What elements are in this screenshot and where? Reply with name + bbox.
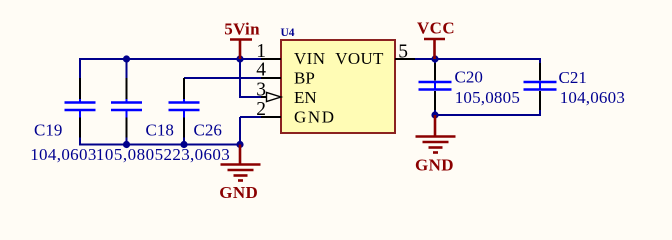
- ground right: [416, 115, 456, 153]
- capacitor C26: [169, 78, 200, 138]
- wire bottom-left ground rail: [80, 144, 240, 146]
- power 5Vin symbol: [230, 40, 252, 60]
- wire GND pin drop: [239, 117, 241, 145]
- svg-text:GND: GND: [415, 156, 454, 175]
- IC U4 voltage regulator: [281, 40, 395, 133]
- wire C18 bottom riser: [126, 137, 128, 145]
- wire EN horizontal: [239, 96, 261, 98]
- node 5Vin junction: [236, 55, 243, 62]
- wire GND pin horizontal: [240, 116, 261, 118]
- node left ground junction: [236, 141, 243, 148]
- node VCC junction: [431, 55, 438, 62]
- svg-text:VCC: VCC: [417, 19, 455, 38]
- pin 5 stub: [395, 58, 415, 60]
- wire C20 bottom stub: [434, 110, 436, 115]
- pin 2 stub: [261, 116, 281, 118]
- wire C18 top drop: [126, 59, 128, 78]
- capacitor C21: [524, 63, 557, 110]
- svg-text:VIN: VIN: [294, 49, 325, 68]
- svg-text:GND: GND: [294, 108, 336, 127]
- svg-text:105,0805: 105,0805: [96, 145, 164, 164]
- wire BP rail from C26: [184, 77, 261, 79]
- svg-text:C20: C20: [455, 68, 483, 87]
- svg-text:C21: C21: [559, 68, 587, 87]
- wire C26 bottom riser: [183, 137, 185, 145]
- svg-text:GND: GND: [219, 183, 258, 202]
- svg-text:C19: C19: [34, 121, 62, 140]
- node C18 bottom junction: [123, 141, 130, 148]
- wire C19 bottom riser: [79, 137, 81, 146]
- power VCC symbol: [424, 39, 445, 59]
- wire C19 top drop: [79, 58, 81, 78]
- ground left: [221, 145, 261, 181]
- capacitor C20: [419, 63, 452, 110]
- svg-text:VOUT: VOUT: [335, 49, 384, 68]
- svg-text:104,0603: 104,0603: [560, 88, 625, 107]
- pin 3 stub: [261, 96, 268, 98]
- capacitor C18: [111, 78, 142, 138]
- svg-text:C26: C26: [194, 121, 222, 140]
- wire bottom-right ground rail: [435, 114, 540, 116]
- pin 1 stub: [261, 58, 281, 60]
- svg-text:U4: U4: [281, 27, 295, 39]
- node C20 bottom junction: [431, 111, 438, 118]
- svg-text:EN: EN: [294, 88, 317, 107]
- svg-text:BP: BP: [294, 69, 315, 88]
- pin 3 enable arrow: [267, 92, 282, 101]
- wire EN drop from 5Vin node: [239, 59, 241, 97]
- pin 4 stub: [261, 77, 281, 79]
- wire C20 top stub: [434, 59, 436, 63]
- svg-text:C18: C18: [146, 121, 174, 140]
- svg-text:223,0603: 223,0603: [164, 145, 231, 164]
- svg-text:105,0805: 105,0805: [455, 88, 520, 107]
- wire C21 bottom riser: [539, 110, 541, 116]
- svg-text:5Vin: 5Vin: [224, 20, 260, 39]
- capacitor C19: [65, 78, 96, 138]
- node C18 top junction: [123, 55, 130, 62]
- svg-text:104,0603: 104,0603: [30, 145, 97, 164]
- wire VOUT to VCC node: [415, 58, 540, 60]
- wire C21 top drop: [539, 58, 541, 63]
- wire top-left rail 5Vin node: [80, 58, 261, 60]
- node C26 bottom junction: [180, 141, 187, 148]
